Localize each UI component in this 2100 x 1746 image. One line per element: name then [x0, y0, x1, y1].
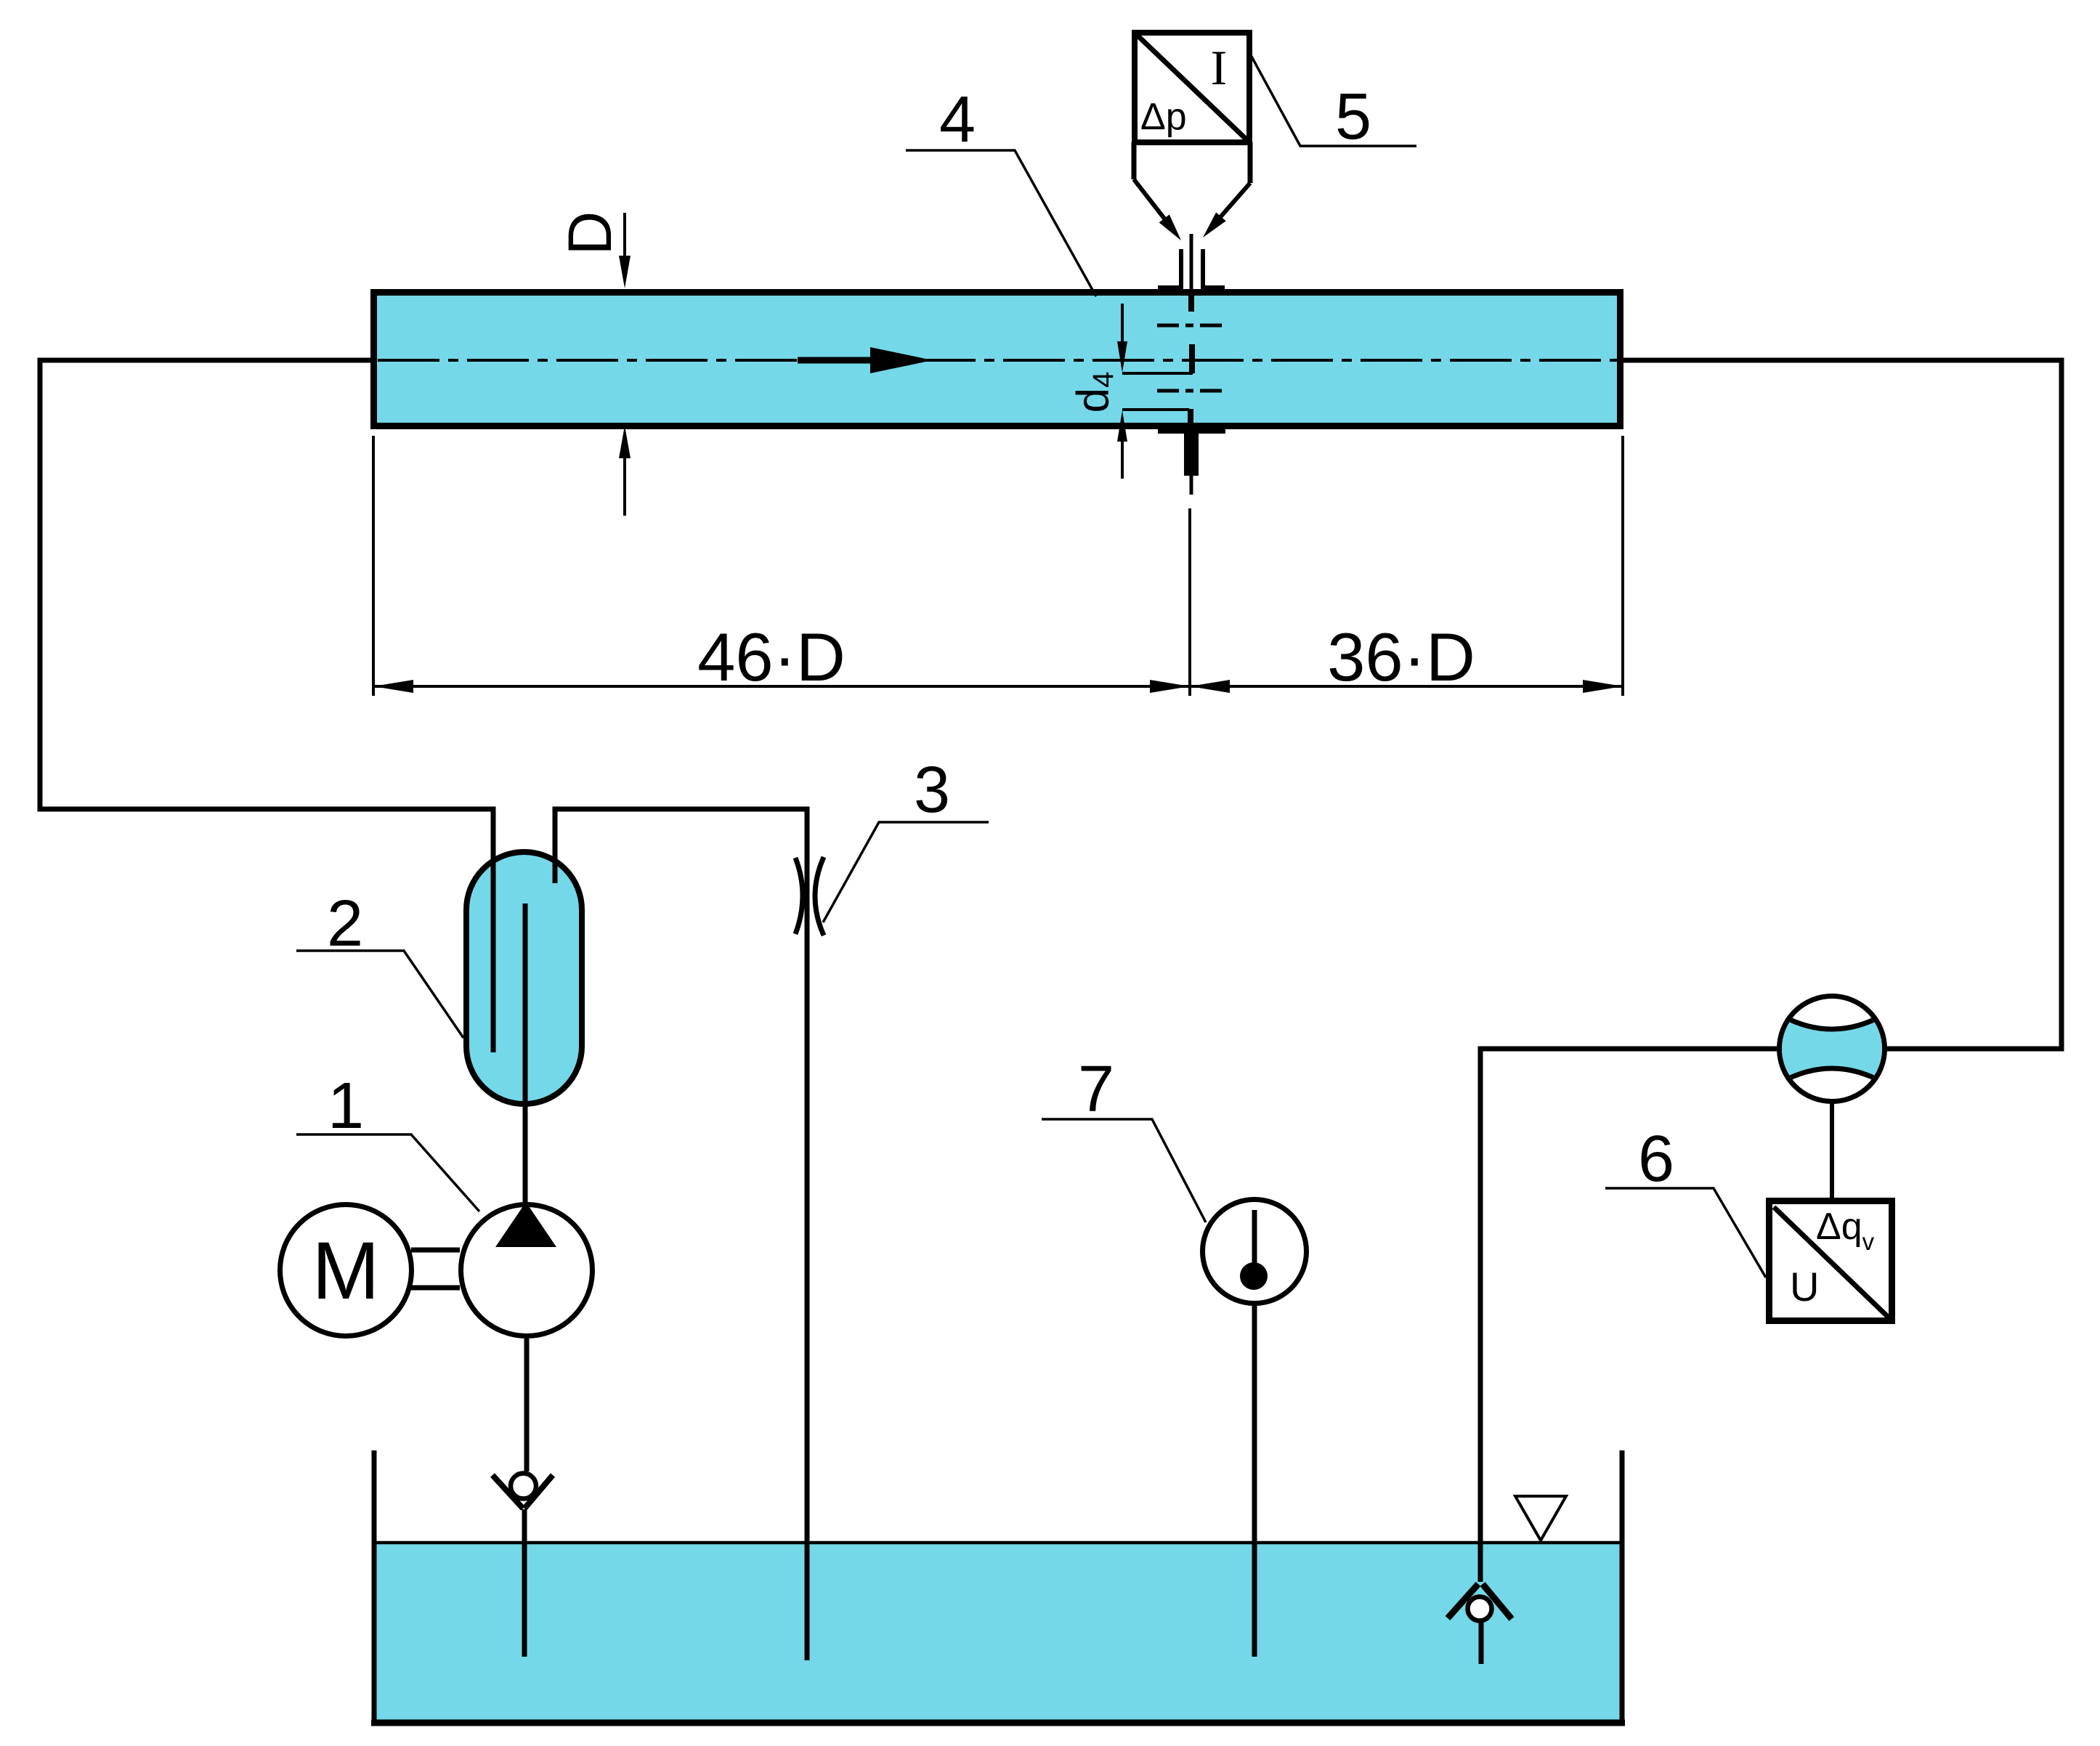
coupling: [411, 1248, 460, 1253]
wire flow meter to return check valve: [1480, 1049, 1777, 1582]
motor circle: [280, 1205, 412, 1336]
flow direction arrow: [798, 357, 875, 364]
thermometer dip line: [1252, 1304, 1257, 1657]
return check valve ball: [1468, 1597, 1492, 1621]
dimension line 46D: [373, 685, 1190, 688]
pipe 4 (measuring pipe section): [374, 293, 1621, 426]
thermometer bulb: [1240, 1262, 1268, 1290]
accumulator outlet stub: [553, 809, 558, 883]
orifice plate lower segment: [1188, 409, 1193, 426]
svg-text:U: U: [1790, 1264, 1819, 1309]
transducer funnel left: [1132, 142, 1137, 179]
wire suction into tank: [522, 1509, 527, 1657]
dimension d4 upper arrow: [1121, 304, 1124, 343]
check valve suction seat: [492, 1475, 523, 1509]
dp transducer 5 box: [1135, 33, 1249, 142]
label 7 leader: [1042, 1119, 1206, 1222]
throttle 3 left arc: [795, 858, 803, 934]
accumulator inlet line: [491, 809, 496, 1052]
svg-text:6: 6: [1638, 1123, 1674, 1195]
flow meter venturi fill: [1774, 1011, 1890, 1087]
dimension D lower arrow: [619, 426, 631, 458]
flow meter circle: [1780, 996, 1885, 1102]
wire pipe outlet to flow meter (right side): [1621, 360, 2062, 1049]
orifice pressure tap walls: [1179, 249, 1183, 291]
label 5 leader: [1251, 55, 1416, 146]
tank water surface: [374, 1541, 1622, 1545]
dimension extension line right: [1621, 436, 1624, 696]
wire pump suction: [524, 1339, 530, 1471]
svg-text:7: 7: [1078, 1053, 1114, 1126]
label 2 leader: [296, 951, 463, 1038]
svg-text:36·D: 36·D: [1327, 619, 1475, 695]
thermometer stem: [1252, 1210, 1257, 1267]
wire accumulator to throttle and tank: [555, 809, 807, 1660]
svg-text:2: 2: [327, 888, 363, 960]
svg-text:M: M: [312, 1225, 379, 1316]
svg-text:Δp: Δp: [1140, 96, 1187, 138]
wire flow meter to transmitter: [1830, 1102, 1834, 1201]
svg-text:1: 1: [328, 1070, 364, 1142]
tank right wall: [1620, 1450, 1625, 1726]
transducer funnel right: [1248, 142, 1253, 183]
orifice tap center line: [1190, 234, 1193, 289]
orifice bore lower dash-dot line: [1157, 389, 1225, 393]
thermometer 7 circle: [1203, 1200, 1307, 1304]
pipe centerline: [378, 359, 1627, 362]
pump triangle: [495, 1202, 556, 1247]
svg-text:46·D: 46·D: [697, 619, 846, 695]
svg-text:D: D: [556, 211, 624, 256]
svg-text:I: I: [1211, 40, 1228, 95]
orifice bottom flange bar: [1158, 424, 1225, 434]
label 3 leader: [823, 822, 989, 922]
label 6 leader: [1605, 1188, 1766, 1278]
wire accumulator to pump: [523, 904, 528, 1204]
accumulator 2: [466, 852, 582, 1104]
svg-text:5: 5: [1335, 81, 1371, 153]
dimension line 36D: [1190, 685, 1623, 688]
dimension extension line middle: [1188, 508, 1191, 696]
dimension D upper arrow: [623, 213, 626, 259]
label 4 leader: [906, 150, 1096, 296]
tank bottom: [371, 1720, 1625, 1726]
label 1 leader: [296, 1134, 479, 1211]
throttle 3 right arc: [815, 857, 824, 935]
orifice bottom stub: [1184, 434, 1199, 476]
pump 1 circle: [461, 1205, 593, 1336]
wire left return loop: [40, 360, 493, 1052]
check valve suction ball: [511, 1474, 536, 1499]
svg-text:4: 4: [939, 84, 976, 156]
transmitter 6 box: [1769, 1201, 1892, 1321]
svg-text:3: 3: [914, 754, 950, 827]
level indicator triangle: [1515, 1496, 1566, 1540]
tank water: [376, 1544, 1622, 1723]
dimension d4 lower arrow: [1117, 410, 1127, 442]
orifice plate upper segment: [1189, 344, 1195, 373]
tank left wall: [372, 1450, 377, 1726]
dimension extension line left: [372, 436, 375, 696]
return line into tank: [1479, 1622, 1484, 1664]
orifice bore upper dash-dot line: [1157, 324, 1225, 328]
orifice top flange tabs: [1158, 285, 1180, 296]
return check valve seat: [1448, 1584, 1478, 1618]
